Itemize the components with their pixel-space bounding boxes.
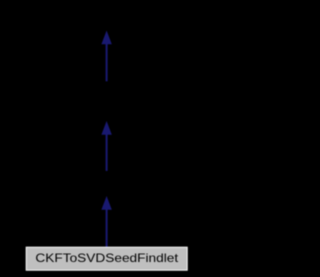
class node CKFToSVDSeedFindlet bbox=[26, 247, 187, 270]
svg-text:CKFToSVDSeedFindlet: CKFToSVDSeedFindlet bbox=[35, 251, 178, 265]
inheritance arrow 2 (middle) bbox=[101, 121, 111, 171]
inheritance arrow 1 (top) bbox=[101, 31, 111, 82]
inheritance arrow 3 (bottom) bbox=[101, 196, 111, 247]
